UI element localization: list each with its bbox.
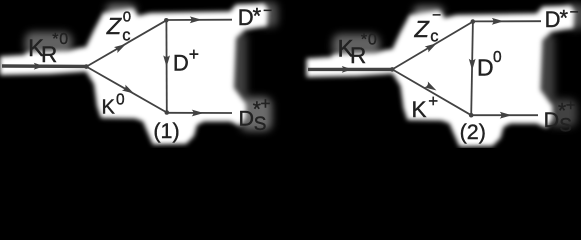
- arrowhead incoming: [342, 66, 353, 73]
- arrowhead Zc0: [114, 41, 128, 53]
- white matte halo diagram 1: [0, 4, 575, 147]
- wire outgoing D*- top: [166, 19, 232, 21]
- arrowhead D0 (down): [469, 59, 476, 71]
- arrowhead Zc-: [425, 40, 439, 52]
- arrowhead K+: [424, 82, 438, 94]
- white matte halo diagram 2: [307, 6, 575, 147]
- label Ds*+ bottom outgoing: [544, 96, 576, 137]
- wire incoming K_R*0 (thick): [308, 68, 392, 71]
- label K+ lower internal: [412, 91, 439, 122]
- svg-text:Z: Z: [414, 16, 431, 42]
- arrowhead incoming: [34, 63, 45, 70]
- label Zc0: [106, 9, 131, 45]
- node left vertex: [390, 67, 395, 72]
- node top vertex: [471, 19, 476, 24]
- arrowhead outgoing bottom: [500, 112, 512, 119]
- arrowhead outgoing top: [492, 18, 504, 25]
- svg-text:+: +: [428, 91, 438, 110]
- svg-text:c: c: [430, 27, 438, 45]
- svg-text:c: c: [122, 26, 130, 44]
- svg-text:+: +: [189, 44, 199, 64]
- svg-text:*: *: [560, 6, 569, 31]
- svg-text:D: D: [173, 51, 189, 76]
- arrowhead outgoing top: [190, 16, 202, 23]
- wire incoming K_R*0 (thick): [2, 64, 86, 68]
- svg-text:−: −: [263, 2, 272, 19]
- label D0 exchange: [477, 49, 502, 80]
- svg-text:+: +: [261, 94, 271, 113]
- svg-text:(1): (1): [153, 119, 179, 143]
- label D+ exchange: [173, 44, 199, 76]
- node left vertex: [84, 64, 89, 69]
- arrowhead outgoing bottom: [192, 110, 204, 117]
- wire Zc0 internal: [86, 20, 166, 66]
- arrowhead K0: [122, 85, 136, 97]
- arrowhead D+ (down): [163, 55, 170, 67]
- label K_R*0 incoming: [28, 31, 69, 67]
- wire K+ internal: [392, 69, 471, 115]
- svg-text:D: D: [544, 108, 560, 132]
- svg-text:−: −: [570, 4, 579, 21]
- label K_R*0 incoming: [338, 32, 378, 69]
- wire D+ internal vertical: [165, 20, 167, 112]
- svg-text:K: K: [412, 97, 427, 122]
- label K0 lower internal: [102, 91, 126, 118]
- label D*- top outgoing: [238, 2, 272, 30]
- label Ds*+ bottom outgoing: [239, 94, 271, 135]
- node top vertex: [164, 18, 169, 23]
- svg-text:D: D: [239, 107, 255, 131]
- node bottom vertex: [165, 110, 170, 115]
- label Zc-: [414, 7, 442, 45]
- svg-text:0: 0: [123, 9, 131, 26]
- svg-text:D: D: [545, 7, 561, 32]
- wire outgoing Ds*+ bottom: [471, 114, 538, 116]
- dim label halos: [25, 2, 581, 131]
- svg-text:0: 0: [493, 49, 502, 66]
- svg-text:D: D: [238, 5, 254, 30]
- svg-text:Z: Z: [106, 13, 123, 39]
- wire K0 internal: [86, 67, 166, 113]
- svg-text:(2): (2): [460, 120, 486, 144]
- svg-text:*0: *0: [52, 31, 69, 48]
- wire outgoing Ds*+ bottom: [167, 112, 232, 114]
- svg-text:+: +: [566, 96, 576, 115]
- wire Zc- internal: [392, 22, 473, 70]
- svg-text:D: D: [477, 54, 494, 80]
- wire outgoing D*- top: [473, 20, 541, 22]
- svg-text:−: −: [432, 7, 441, 24]
- svg-text:*: *: [253, 4, 262, 29]
- svg-text:K: K: [102, 97, 116, 119]
- label D*- top outgoing: [545, 4, 579, 32]
- svg-text:*0: *0: [361, 32, 378, 49]
- wire D0 internal vertical: [471, 22, 473, 116]
- svg-text:0: 0: [116, 91, 125, 108]
- node bottom vertex: [469, 113, 474, 118]
